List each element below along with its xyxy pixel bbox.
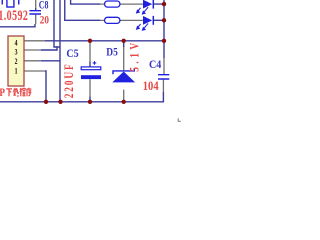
svg-text:20: 20 [40,13,49,26]
svg-text:D5: D5 [106,45,118,59]
svg-text:C4: C4 [149,57,161,71]
svg-text:C5: C5 [66,46,78,60]
svg-text:220UF: 220UF [63,62,77,98]
svg-text:1: 1 [15,66,18,75]
svg-text:C8: C8 [39,0,49,12]
svg-text:2: 2 [15,57,18,66]
svg-text:104: 104 [143,79,159,93]
svg-text:1.0592: 1.0592 [0,7,28,23]
svg-text:4: 4 [15,38,18,47]
svg-text:3: 3 [15,47,18,56]
svg-text:P: P [0,85,5,99]
svg-text:5.1V: 5.1V [128,39,142,71]
